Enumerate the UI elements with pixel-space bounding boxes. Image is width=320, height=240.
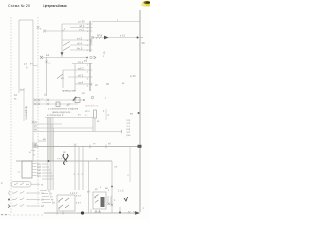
- svg-text:х з х: х з х: [76, 202, 82, 205]
- label 16 left: [14, 93, 17, 101]
- wire: pin row y45: [70, 41, 90, 45]
- svg-text:привод зам: привод зам: [62, 90, 76, 93]
- pin stack bundle ends: [40, 191, 51, 203]
- svg-text:х: х: [40, 28, 42, 31]
- wire: row y100: [33, 99, 84, 101]
- svg-text:сч 1: сч 1: [78, 60, 84, 64]
- svg-text:кн: кн: [61, 77, 64, 80]
- bottom bundle terminal labels: [70, 191, 90, 196]
- connector mark on x112: [111, 204, 114, 207]
- connector row 4: [8, 204, 45, 208]
- wire: bus top to relay: [92, 19, 140, 22]
- svg-text:4к: 4к: [51, 200, 54, 202]
- svg-text:х: х: [100, 187, 102, 189]
- svg-text:пл: пл: [63, 151, 66, 154]
- svg-text:кб: кб: [41, 199, 44, 202]
- connector mark right of S5: [108, 203, 111, 206]
- svg-text:17: 17: [24, 62, 27, 66]
- tiny caption row 1: [48, 108, 79, 111]
- fuse F1: [94, 110, 97, 118]
- svg-text:жб 2: жб 2: [78, 66, 84, 70]
- connector row 3: [8, 198, 44, 202]
- pin stack labels: [48, 191, 55, 205]
- svg-text:2б: 2б: [49, 194, 52, 196]
- wire: row y117.5: [45, 117, 93, 119]
- small part circle lower: [91, 96, 106, 100]
- svg-text:ж битая кор 2: ж битая кор 2: [47, 113, 64, 117]
- wire: bundle vertical x79: [78, 147, 80, 191]
- wire: pin row y27.5: [70, 24, 90, 28]
- svg-text:1: 1: [87, 65, 89, 67]
- svg-text:1: 1: [114, 199, 116, 202]
- wire: left box top: [19, 19, 33, 21]
- svg-text:ж1: ж1: [46, 53, 50, 57]
- wire: row y131.5: [33, 129, 122, 132]
- arrowhead on feed vertical: [61, 52, 64, 56]
- junction dot arrow line at bus: [137, 37, 144, 39]
- connector marks below strip X2: [90, 82, 126, 87]
- wire: main horizontal A y146.5: [33, 146, 140, 148]
- svg-text:1 х 2: 1 х 2: [118, 190, 124, 193]
- svg-text:t1: t1: [103, 51, 106, 55]
- wire: bottom bus y213: [44, 212, 139, 214]
- junction dot on x112: [111, 186, 113, 188]
- terminal dot on y57.5: [86, 57, 88, 59]
- ECU pin labels: [37, 163, 42, 178]
- wire: branch vertical x46.5: [46, 58, 48, 97]
- svg-text:кч: кч: [78, 113, 81, 116]
- end tick on y131.5: [121, 130, 123, 133]
- label pin 1: [78, 20, 85, 24]
- wire: row y104: [33, 103, 78, 105]
- junction label at bus y113: [130, 112, 140, 116]
- arrowhead to bus: [104, 36, 109, 40]
- component dark mark y104: [56, 102, 60, 107]
- svg-text:кж: кж: [105, 187, 108, 190]
- watermark text pink: [85, 104, 99, 108]
- wire hop arc at junction: [62, 28, 65, 31]
- connector strip X1 top: [87, 21, 93, 52]
- lamp component: [63, 151, 68, 164]
- branch tick on B1: [31, 150, 35, 152]
- wire: main vertical bus B1: [32, 20, 34, 161]
- stub x33 y65: [30, 63, 38, 66]
- ECU box A1: [22, 161, 32, 178]
- wire: feed vertical V5: [61, 24, 63, 58]
- component on y100: [75, 98, 85, 103]
- svg-text:5гб: 5гб: [37, 175, 41, 178]
- switch unit box S5: [93, 192, 106, 209]
- wire-colour list right: [127, 119, 132, 137]
- wires: ECU fan rows into bundle: [42, 164, 54, 179]
- label under y57.5: [84, 59, 88, 63]
- arrowhead at right bus bottom: [135, 211, 140, 215]
- svg-text:кх: кх: [122, 82, 125, 85]
- wire: vertical x112: [111, 161, 113, 213]
- svg-text:зч 3: зч 3: [77, 36, 82, 40]
- wire: main horizontal Bline y161: [16, 160, 112, 162]
- svg-text:б: б: [33, 154, 35, 157]
- wire: pin row y50: [70, 46, 90, 50]
- harness dashed boundary left: [10, 17, 12, 214]
- label left of ECU box: [18, 172, 21, 174]
- svg-text:чб: чб: [34, 121, 37, 124]
- small part circle: [90, 56, 92, 58]
- svg-text:к: к: [128, 174, 130, 177]
- ticks crossing line A: [90, 145, 106, 149]
- connector circle on arrow line: [91, 36, 93, 38]
- marks right of S5: [108, 196, 116, 205]
- title: Центральный замок: [43, 4, 67, 8]
- svg-text:с: с: [103, 55, 105, 58]
- ECU pin stubs: [32, 164, 37, 176]
- svg-text:х2: х2: [82, 92, 85, 95]
- svg-text:з2: з2: [95, 188, 98, 191]
- wire: left box left edge: [18, 20, 20, 93]
- wire: corner down x93: [92, 118, 94, 132]
- labels above Bline: [57, 158, 98, 161]
- extra connector specks: [100, 187, 110, 192]
- wire: right power bus 30: [139, 10, 141, 212]
- label 2 far left: [1, 181, 3, 185]
- svg-text:1 2 1 2: 1 2 1 2: [70, 192, 78, 195]
- connector mark X on feed line: [40, 56, 43, 59]
- labels left of ECU: [29, 151, 35, 157]
- svg-text:1з: 1з: [48, 191, 50, 193]
- svg-text:кж: кж: [130, 113, 133, 116]
- tiny label right of bus: [143, 207, 145, 210]
- labels above bottom boxes: [95, 187, 124, 193]
- label left of switch: [61, 77, 64, 80]
- switch S1: [63, 42, 70, 46]
- svg-text:30: 30: [142, 41, 146, 45]
- bundle pin labels: [74, 173, 84, 176]
- svg-text:3ч: 3ч: [50, 197, 53, 199]
- svg-text:кж: кж: [43, 138, 46, 141]
- svg-text:1: 1: [103, 110, 105, 113]
- ground symbol under relay: [90, 39, 93, 44]
- svg-text:Схема № 20: Схема № 20: [8, 4, 30, 8]
- svg-text:кб: кб: [34, 125, 37, 128]
- wire: branch vertical x24: [23, 88, 25, 121]
- switch S3: [57, 74, 63, 79]
- connector row 2: [9, 191, 44, 196]
- svg-text:ч: ч: [49, 62, 51, 65]
- faint dotted baseline bottom-left: [1, 214, 45, 217]
- wire: stub verticals to bottom bus: [89, 161, 121, 213]
- svg-text:Центральный замок: Центральный замок: [43, 4, 67, 8]
- connector marks on y100: [34, 98, 49, 101]
- svg-text:t: t: [105, 96, 106, 100]
- svg-text:ч ч ч: ч ч ч: [57, 158, 63, 161]
- label inside left box: [24, 62, 28, 70]
- label above y57.5: [46, 53, 50, 57]
- svg-text:2: 2: [108, 114, 110, 117]
- wire: pin row y40: [62, 36, 90, 40]
- warning icon top-right: [141, 1, 152, 7]
- label at branch bottom: [44, 94, 47, 97]
- svg-text:гб 4: гб 4: [77, 41, 82, 45]
- wire: pin row y84: [75, 80, 90, 84]
- label under mid block: [62, 90, 85, 96]
- wire: long horizontal y57.5: [43, 57, 86, 59]
- svg-text:х1 х: х1 х: [85, 110, 90, 113]
- svg-text:гч: гч: [93, 142, 96, 145]
- ground marks below S5: [95, 210, 101, 212]
- harness dashed boundary inner: [37, 17, 39, 204]
- svg-text:ж: ж: [96, 158, 98, 161]
- svg-text:30: 30: [106, 82, 109, 86]
- connector mark on branch: [45, 61, 50, 66]
- wire: bundle vertical x83: [82, 147, 84, 191]
- svg-text:кч: кч: [30, 63, 33, 66]
- junction dot bus x120: [119, 212, 121, 214]
- terminal screw mark: [67, 97, 77, 107]
- svg-text:х: х: [108, 190, 110, 192]
- wire: pin row y63.5: [72, 60, 90, 64]
- svg-text:а1: а1: [18, 172, 21, 174]
- wire: short line y141: [38, 138, 46, 141]
- svg-text:4: 4: [87, 86, 89, 88]
- junction dot on Bline at bundle: [48, 160, 50, 162]
- svg-text:2: 2: [1, 181, 3, 185]
- bundle wires vertical: [48, 118, 54, 191]
- svg-text:ж2: ж2: [84, 59, 88, 63]
- wire: row y128: [33, 125, 93, 128]
- wire: arrow feed line y37.5: [92, 37, 139, 39]
- svg-text:кз: кз: [14, 98, 17, 101]
- label above y117.5: [47, 113, 81, 117]
- shaded wire bundle band: [47, 117, 54, 161]
- svg-text:х2 ж: х2 ж: [97, 33, 102, 37]
- wire: vertical x130: [128, 147, 131, 183]
- junction blob bottom bus: [81, 211, 84, 214]
- arrow mark on y57.5: [94, 56, 96, 59]
- wire: row y124: [33, 121, 62, 124]
- connector mark on box line: [37, 26, 40, 29]
- svg-text:чз синий пр: чз синий пр: [24, 106, 28, 120]
- svg-text:зб 3: зб 3: [78, 73, 84, 77]
- label in left box bottom: [20, 89, 25, 92]
- bundle end labels right of S4: [76, 195, 82, 205]
- connector mark X on wire y31: [40, 28, 46, 33]
- svg-text:ч .: ч .: [85, 114, 88, 117]
- svg-text:1: 1: [143, 207, 145, 210]
- svg-text:5ж: 5ж: [52, 203, 55, 205]
- wire: mid block vertical V7: [74, 64, 76, 92]
- label 30 right bus: [142, 41, 146, 45]
- label right bus mid: [130, 74, 136, 78]
- connector mark x33 y122: [32, 121, 35, 124]
- svg-text:роз: роз: [127, 134, 132, 137]
- connector marks on A: [35, 144, 76, 148]
- svg-text:фон: фон: [20, 89, 25, 92]
- svg-text:кз: кз: [97, 120, 100, 123]
- wire: vertical x95 y118-131: [95, 118, 100, 132]
- svg-text:ж Х2: ж Х2: [130, 74, 136, 78]
- svg-text:3: 3: [87, 79, 89, 81]
- wire: pin row y24: [62, 23, 90, 25]
- labels above A: [93, 141, 111, 145]
- svg-text:гч 2: гч 2: [79, 27, 84, 31]
- junction at bus y146.5: [138, 145, 142, 148]
- svg-text:к Х1: к Х1: [120, 34, 126, 38]
- switch S2: [63, 47, 70, 51]
- label right of x112: [115, 167, 119, 169]
- wire: feed vertical x63: [62, 70, 64, 88]
- connector strip X2 mid: [87, 63, 93, 91]
- wire label vertical on B1: [24, 106, 28, 120]
- label on arrow line right: [120, 34, 126, 38]
- small label t: [103, 51, 106, 59]
- connector marks on y104: [34, 103, 49, 106]
- marks col x104: [103, 109, 110, 120]
- connector oval row 1: [11, 182, 43, 188]
- svg-text:16: 16: [14, 93, 17, 97]
- tiny caption row 2: [52, 111, 71, 114]
- svg-text:хз: хз: [41, 183, 43, 186]
- svg-text:шт: шт: [115, 167, 119, 169]
- svg-text:х2: х2: [95, 83, 98, 87]
- wire: bundle vertical x75: [74, 147, 76, 191]
- wire: pin row y77: [68, 73, 90, 77]
- switch unit box S4: [57, 195, 75, 211]
- ticks on bottom bus: [57, 211, 136, 215]
- dark check mark left edge: [124, 197, 128, 201]
- svg-text:2: 2: [87, 72, 89, 74]
- svg-text:а: а: [29, 151, 31, 154]
- svg-text:зж: зж: [34, 129, 37, 132]
- svg-text:бч 5: бч 5: [77, 46, 83, 50]
- connector slashes on arrow line: [96, 33, 102, 39]
- wire: pin row y31: [44, 27, 90, 31]
- svg-text:жб: жб: [41, 205, 45, 208]
- title: Схема № 20: [8, 4, 30, 8]
- svg-text:чз 4: чз 4: [78, 80, 84, 84]
- wire: pin row y70: [63, 66, 90, 70]
- svg-text:кб: кб: [108, 141, 111, 145]
- svg-text:autolub.ru: autolub.ru: [85, 104, 99, 108]
- svg-text:б: б: [26, 66, 28, 70]
- gray smudge near B1: [32, 143, 37, 149]
- connector marks col x86: [85, 110, 90, 117]
